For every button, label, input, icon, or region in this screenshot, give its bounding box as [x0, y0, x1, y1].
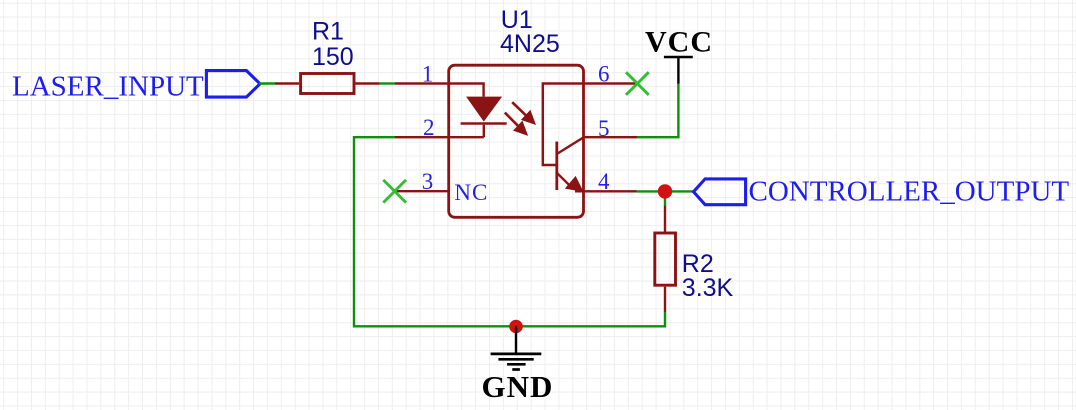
junction on GND net [509, 320, 523, 334]
U1 pin 6 lead [584, 82, 638, 84]
opto-coupler U1 box [449, 65, 584, 217]
svg-text:VCC: VCC [645, 25, 713, 58]
U1 pin 3 lead [395, 190, 449, 192]
U1 LED [449, 84, 507, 138]
U1 phototransistor [543, 84, 584, 192]
resistor R2 [655, 206, 676, 312]
svg-text:4N25: 4N25 [500, 30, 560, 58]
wire W1 port to R1 [259, 82, 275, 84]
U1 pin 2 lead [395, 136, 449, 138]
svg-text:6: 6 [598, 61, 610, 86]
wire W3 pin 5 to VCC [637, 83, 678, 137]
U1 pin 4 lead [575, 190, 637, 192]
svg-text:5: 5 [598, 116, 610, 141]
junction node pin4 R2 [658, 184, 672, 198]
svg-text:2: 2 [423, 115, 435, 140]
svg-text:NC: NC [454, 180, 488, 205]
svg-text:3: 3 [422, 169, 434, 194]
wire W2 R1 to U1 pin 1 [380, 82, 395, 84]
svg-text:1: 1 [422, 61, 434, 86]
no-connect X on pin 3 [383, 180, 406, 203]
svg-text:CONTROLLER_OUTPUT: CONTROLLER_OUTPUT [749, 175, 1070, 207]
no-connect X on pin 6 [626, 72, 649, 95]
port LASER_INPUT [12, 70, 260, 102]
power VCC symbol [645, 25, 713, 83]
U1 pin 5 lead [584, 136, 638, 138]
wire W4 pin 2 to GND net [354, 137, 665, 326]
svg-text:3.3K: 3.3K [682, 274, 734, 302]
U1 pin 1 lead [395, 82, 449, 84]
svg-text:4: 4 [598, 169, 610, 194]
port CONTROLLER_OUTPUT [694, 175, 1070, 207]
ground GND symbol [482, 327, 554, 404]
svg-text:LASER_INPUT: LASER_INPUT [12, 70, 204, 102]
wire W5 pin 4 to output port [637, 191, 693, 206]
resistor R1 [275, 74, 380, 94]
U1 LED light arrows [505, 102, 534, 133]
svg-text:GND: GND [482, 369, 554, 404]
svg-text:150: 150 [312, 43, 354, 71]
svg-text:R1: R1 [312, 17, 344, 45]
